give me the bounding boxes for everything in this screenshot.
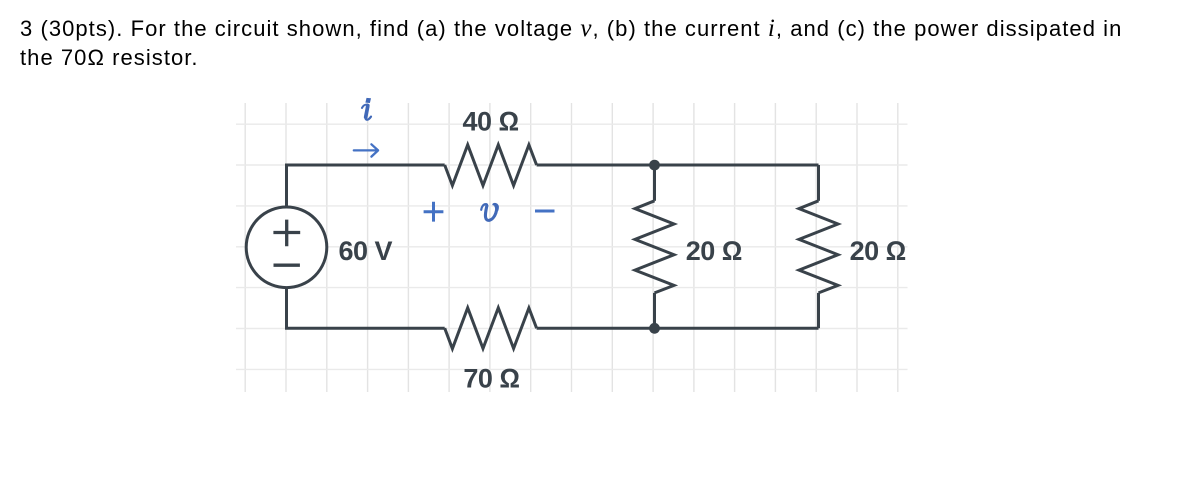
plus sign inside source <box>273 220 300 266</box>
voltage source V1 circle <box>246 207 327 288</box>
current label i <box>365 98 371 103</box>
wire right branch down <box>817 165 820 201</box>
current arrow <box>354 144 378 156</box>
node dot top <box>649 160 660 171</box>
minus sign inside source <box>274 264 300 267</box>
voltage label v <box>481 204 498 220</box>
problem statement text <box>20 14 1177 72</box>
svg-text:70 Ω: 70 Ω <box>463 364 519 394</box>
svg-text:20 Ω: 20 Ω <box>686 236 742 266</box>
svg-text:20 Ω: 20 Ω <box>850 236 906 266</box>
resistor R 40ohm zigzag <box>445 145 537 186</box>
wire top-left from source to 40ohm resistor <box>287 165 445 207</box>
wire bottom-right <box>537 327 819 330</box>
wire bottom-left from source to 70ohm <box>287 288 445 329</box>
resistor 20ohm middle zigzag <box>635 201 674 293</box>
wire middle branch lower stub <box>653 293 656 328</box>
resistor 70ohm zigzag <box>445 308 537 349</box>
resistor 20ohm right zigzag <box>799 201 838 293</box>
svg-text:40 Ω: 40 Ω <box>462 106 518 136</box>
wire middle branch down <box>653 165 656 201</box>
minus label of v <box>535 210 555 213</box>
wire right branch lower stub <box>817 293 820 328</box>
svg-text:60 V: 60 V <box>339 236 393 266</box>
plus label of v <box>424 202 555 222</box>
wire top-right <box>537 164 819 167</box>
node dot bottom <box>649 323 660 334</box>
